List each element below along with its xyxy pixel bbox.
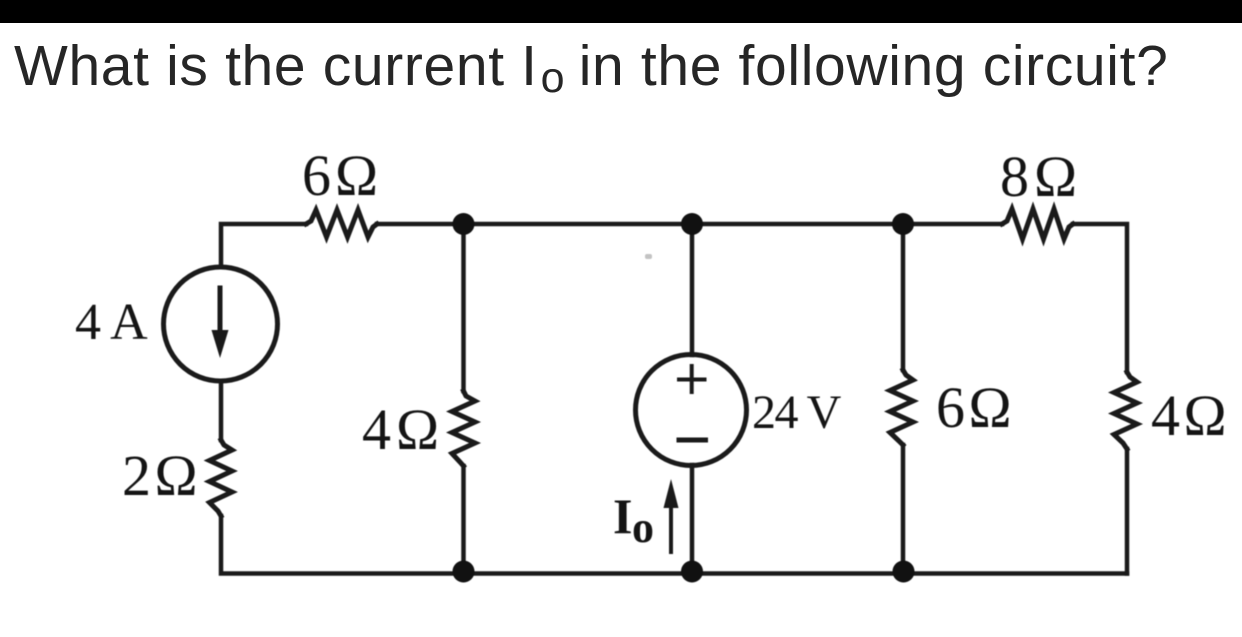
label 2 ohm bbox=[122, 442, 201, 509]
wire: 24V branch top bbox=[690, 224, 695, 355]
label 4 ohm middle bbox=[362, 396, 444, 463]
node dot bottom A bbox=[453, 561, 475, 583]
wire: 24V branch bottom bbox=[690, 465, 695, 574]
wire: below current source bbox=[219, 381, 224, 440]
node dot top A bbox=[453, 213, 475, 235]
label 6 ohm bbox=[302, 142, 382, 209]
wire: 6ohm branch top bbox=[901, 224, 906, 370]
resistor R 4ohm (middle, vertical) bbox=[452, 391, 475, 466]
voltage source V1 24V (circle) bbox=[636, 355, 747, 466]
wire: bottom-left corner bbox=[221, 516, 1127, 574]
node dot top C bbox=[892, 213, 914, 235]
plus sign bbox=[679, 378, 705, 382]
label Io bbox=[613, 487, 632, 545]
node dot top B bbox=[681, 213, 703, 235]
wire: 4ohm branch top bbox=[461, 224, 466, 391]
label Io subscript o bbox=[632, 502, 654, 553]
resistor R 6ohm (right, vertical) bbox=[890, 370, 913, 445]
label 4 ohm far right bbox=[1151, 382, 1230, 449]
current Io arrow (up) bbox=[669, 507, 673, 552]
resistor R 6ohm (top left, horizontal) bbox=[306, 210, 377, 237]
faint scan speck bbox=[645, 254, 652, 259]
resistor R 4ohm (far right, vertical) bbox=[1114, 372, 1137, 449]
current source I1 4A (circle) bbox=[164, 267, 278, 381]
node dot bottom C bbox=[893, 561, 915, 583]
label 8 ohm bbox=[1000, 143, 1082, 210]
wire: top-right corner bbox=[1073, 224, 1127, 372]
node dot bottom B bbox=[681, 561, 703, 583]
wire: top middle bbox=[377, 222, 1002, 227]
title text bbox=[14, 33, 1242, 99]
resistor R 2ohm (left, vertical) bbox=[210, 440, 233, 516]
wire: 6ohm branch bottom bbox=[901, 445, 906, 574]
resistor R 8ohm (top right, horizontal) bbox=[1002, 209, 1073, 239]
top black bar bbox=[0, 0, 1242, 23]
label 24 V bbox=[752, 385, 840, 440]
wire: 4ohm branch bottom bbox=[461, 466, 466, 574]
wire: top-left horizontal to 6ohm resistor bbox=[221, 224, 306, 267]
wire: bottom-right riser bbox=[1125, 449, 1130, 574]
minus sign bbox=[679, 438, 706, 443]
label 4 A bbox=[75, 293, 147, 352]
current source arrow (down) bbox=[218, 288, 223, 332]
label 6 ohm right bbox=[936, 374, 1015, 441]
